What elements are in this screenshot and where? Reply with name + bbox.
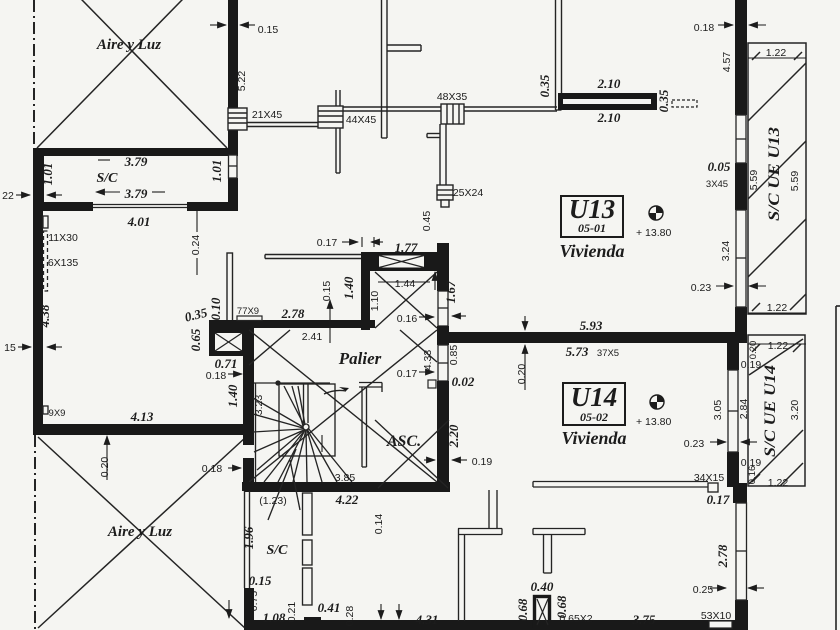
svg-text:05-02: 05-02 xyxy=(580,410,608,424)
svg-text:5.59: 5.59 xyxy=(748,170,760,191)
svg-text:0.28: 0.28 xyxy=(344,606,356,627)
svg-text:1.22: 1.22 xyxy=(767,302,788,314)
svg-text:0.17: 0.17 xyxy=(707,492,730,507)
svg-text:Vivienda: Vivienda xyxy=(559,241,624,261)
svg-text:1.01: 1.01 xyxy=(40,163,55,186)
svg-text:0.02: 0.02 xyxy=(452,374,475,389)
svg-text:2.10: 2.10 xyxy=(597,76,621,91)
svg-text:Palier: Palier xyxy=(338,349,382,368)
svg-text:0.71: 0.71 xyxy=(215,356,238,371)
svg-text:0.23: 0.23 xyxy=(691,282,712,294)
svg-text:S/C: S/C xyxy=(266,543,288,558)
svg-text:34X15: 34X15 xyxy=(694,472,725,484)
svg-text:0.17: 0.17 xyxy=(397,368,418,380)
svg-text:3.23: 3.23 xyxy=(253,395,265,416)
svg-text:0.15: 0.15 xyxy=(321,281,333,302)
svg-text:3.85: 3.85 xyxy=(335,472,356,484)
svg-text:1.77: 1.77 xyxy=(395,240,418,255)
svg-text:0.14: 0.14 xyxy=(373,514,385,535)
svg-text:6X135: 6X135 xyxy=(48,257,79,269)
svg-text:ASC.: ASC. xyxy=(386,433,421,450)
svg-text:1.22: 1.22 xyxy=(768,340,789,352)
svg-text:4.13: 4.13 xyxy=(130,409,154,424)
svg-text:3.24: 3.24 xyxy=(720,241,732,262)
svg-text:0.10: 0.10 xyxy=(208,297,223,320)
svg-text:+ 13.80: + 13.80 xyxy=(636,416,671,428)
svg-text:5.93: 5.93 xyxy=(580,318,603,333)
svg-text:05-01: 05-01 xyxy=(578,221,606,235)
svg-text:Aire y Luz: Aire y Luz xyxy=(107,524,172,540)
svg-text:1.44: 1.44 xyxy=(395,278,416,290)
svg-text:0.41: 0.41 xyxy=(318,600,341,615)
svg-text:25X24: 25X24 xyxy=(453,187,484,199)
svg-text:0.16: 0.16 xyxy=(747,466,758,485)
svg-text:1.67: 1.67 xyxy=(443,280,458,303)
svg-text:37X5: 37X5 xyxy=(597,348,619,359)
svg-text:0.75: 0.75 xyxy=(248,591,260,612)
svg-text:0.25: 0.25 xyxy=(693,584,714,596)
svg-text:0.45: 0.45 xyxy=(421,211,433,232)
svg-text:0.18: 0.18 xyxy=(202,463,223,475)
svg-text:3.20: 3.20 xyxy=(789,400,801,421)
svg-text:1.40: 1.40 xyxy=(341,276,356,299)
svg-text:0.85: 0.85 xyxy=(448,345,460,366)
svg-text:1.96: 1.96 xyxy=(241,526,256,549)
svg-text:Vivienda: Vivienda xyxy=(561,428,626,448)
svg-text:0.65: 0.65 xyxy=(188,328,203,351)
svg-text:4.31: 4.31 xyxy=(415,612,439,627)
svg-text:48X35: 48X35 xyxy=(437,91,468,103)
svg-text:0.15: 0.15 xyxy=(249,573,272,588)
svg-text:U14: U14 xyxy=(571,382,618,412)
svg-text:1.22: 1.22 xyxy=(766,47,787,59)
svg-text:1.01: 1.01 xyxy=(209,160,224,183)
svg-text:2.78: 2.78 xyxy=(281,306,305,321)
svg-text:+ 13.80: + 13.80 xyxy=(636,227,671,239)
svg-text:5.22: 5.22 xyxy=(236,71,248,92)
svg-text:2.84: 2.84 xyxy=(738,399,750,420)
svg-text:9X9: 9X9 xyxy=(49,408,66,419)
svg-text:5.59: 5.59 xyxy=(789,171,801,192)
svg-text:53X10: 53X10 xyxy=(701,610,732,622)
svg-text:3.79: 3.79 xyxy=(124,154,148,169)
svg-text:0.35: 0.35 xyxy=(656,89,671,112)
svg-text:0.23: 0.23 xyxy=(684,438,705,450)
svg-text:2.20: 2.20 xyxy=(446,424,461,448)
svg-text:(1.23): (1.23) xyxy=(259,495,286,507)
svg-text:0.15: 0.15 xyxy=(258,24,279,36)
svg-text:S/C UE U14: S/C UE U14 xyxy=(762,365,779,457)
svg-text:0.16: 0.16 xyxy=(397,313,418,325)
svg-text:4.38: 4.38 xyxy=(37,304,52,328)
svg-text:0.18: 0.18 xyxy=(206,370,227,382)
svg-text:4.57: 4.57 xyxy=(721,52,733,73)
svg-text:0.19: 0.19 xyxy=(741,359,762,371)
svg-text:44X45: 44X45 xyxy=(346,114,377,126)
svg-text:1.08: 1.08 xyxy=(263,610,286,625)
svg-text:11X30: 11X30 xyxy=(48,232,78,244)
svg-text:S/C: S/C xyxy=(96,171,118,186)
svg-text:5.73: 5.73 xyxy=(566,344,589,359)
svg-text:1.22: 1.22 xyxy=(768,477,789,489)
svg-text:0.05: 0.05 xyxy=(708,159,731,174)
svg-text:0.24: 0.24 xyxy=(190,235,202,256)
svg-text:4.22: 4.22 xyxy=(335,492,359,507)
svg-text:U13: U13 xyxy=(569,194,616,224)
svg-text:77X9: 77X9 xyxy=(237,306,259,317)
svg-text:0.20: 0.20 xyxy=(516,364,528,385)
svg-text:0.35: 0.35 xyxy=(537,74,552,97)
svg-text:0.68: 0.68 xyxy=(515,598,530,621)
svg-text:4.33: 4.33 xyxy=(422,350,434,371)
svg-text:1.10: 1.10 xyxy=(369,291,381,312)
svg-text:0.21: 0.21 xyxy=(286,602,298,623)
svg-text:4.01: 4.01 xyxy=(127,214,151,229)
svg-text:21X45: 21X45 xyxy=(252,109,283,121)
svg-text:0.17: 0.17 xyxy=(317,237,338,249)
svg-text:0.18: 0.18 xyxy=(694,22,715,34)
svg-text:0.19: 0.19 xyxy=(472,456,493,468)
svg-text:3.79: 3.79 xyxy=(124,186,148,201)
svg-text:2.41: 2.41 xyxy=(302,331,323,343)
svg-text:0.65X2: 0.65X2 xyxy=(559,613,592,625)
svg-text:Aire y Luz: Aire y Luz xyxy=(96,37,161,53)
svg-text:2.78: 2.78 xyxy=(715,544,730,568)
svg-text:0.40: 0.40 xyxy=(531,579,554,594)
svg-text:S/C UE U13: S/C UE U13 xyxy=(766,127,783,221)
svg-text:0.20: 0.20 xyxy=(99,457,111,478)
svg-text:3.75: 3.75 xyxy=(632,612,656,627)
svg-text:15: 15 xyxy=(4,342,16,354)
svg-text:0.20: 0.20 xyxy=(748,341,759,360)
svg-text:1.40: 1.40 xyxy=(225,384,240,407)
svg-text:2.10: 2.10 xyxy=(597,110,621,125)
svg-text:3X45: 3X45 xyxy=(706,179,728,190)
svg-text:3.05: 3.05 xyxy=(712,400,724,421)
svg-text:22: 22 xyxy=(2,190,14,202)
